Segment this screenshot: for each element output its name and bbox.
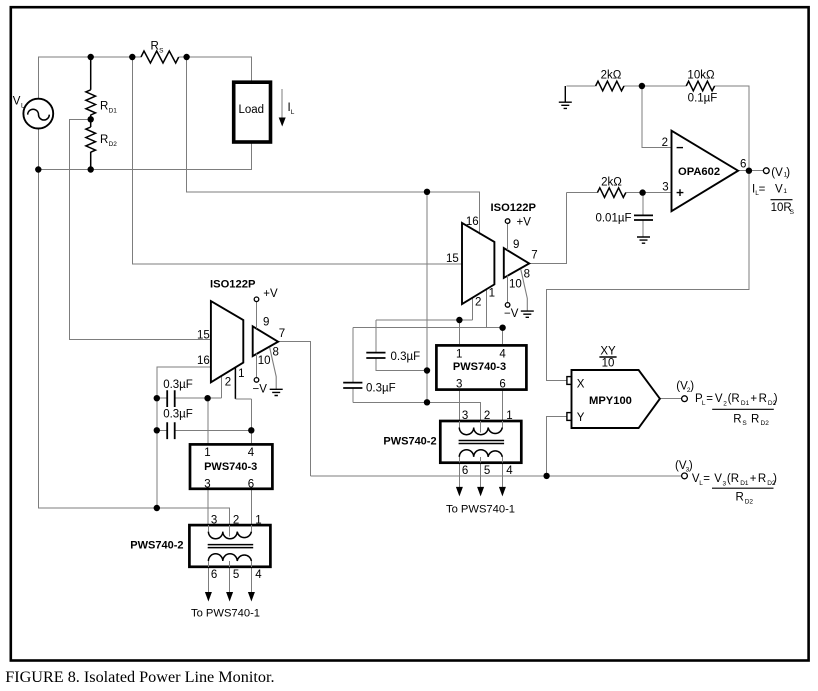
svg-text:0.3µF: 0.3µF — [391, 351, 421, 363]
svg-text:2: 2 — [723, 400, 727, 407]
svg-text:−V: −V — [253, 383, 268, 395]
svg-text:To PWS740-1: To PWS740-1 — [446, 504, 515, 516]
svg-text:2: 2 — [225, 377, 231, 389]
svg-text:2: 2 — [233, 514, 239, 526]
svg-text:(R: (R — [728, 393, 740, 405]
svg-text:=: = — [706, 393, 713, 405]
svg-text:D2: D2 — [109, 141, 118, 148]
svg-text:0.3µF: 0.3µF — [163, 379, 193, 391]
svg-text:ISO122P: ISO122P — [491, 202, 537, 214]
svg-text:OPA602: OPA602 — [678, 166, 720, 178]
svg-text:R: R — [151, 41, 159, 53]
svg-text:9: 9 — [263, 317, 269, 329]
svg-text:3: 3 — [204, 479, 210, 491]
svg-text:): ) — [786, 167, 790, 179]
svg-text:4: 4 — [506, 465, 513, 477]
svg-text:10: 10 — [258, 355, 271, 367]
svg-text:L: L — [702, 400, 706, 407]
svg-text:(R: (R — [727, 473, 739, 485]
svg-text:Y: Y — [577, 412, 585, 424]
svg-text:): ) — [774, 393, 778, 405]
svg-text:D1: D1 — [740, 480, 749, 487]
svg-text:R: R — [100, 134, 108, 146]
svg-text:0.1µF: 0.1µF — [688, 93, 718, 105]
svg-text:1: 1 — [506, 410, 512, 422]
svg-text:2: 2 — [475, 296, 481, 308]
svg-text:D2: D2 — [745, 498, 754, 505]
svg-text:D1: D1 — [741, 400, 750, 407]
svg-text:0.3µF: 0.3µF — [163, 409, 193, 421]
svg-text:2: 2 — [484, 410, 490, 422]
svg-text:): ) — [690, 380, 694, 392]
svg-text:+: + — [750, 393, 757, 405]
svg-text:0.3µF: 0.3µF — [366, 382, 396, 394]
svg-text:V: V — [13, 96, 21, 108]
svg-text:10: 10 — [509, 279, 522, 291]
svg-text:3: 3 — [456, 379, 462, 391]
svg-text:S: S — [159, 48, 164, 55]
svg-text:16: 16 — [466, 216, 479, 228]
svg-text:=: = — [703, 473, 710, 485]
svg-text:S: S — [742, 420, 747, 427]
svg-text:PWS740-2: PWS740-2 — [383, 436, 436, 448]
svg-text:6: 6 — [740, 158, 746, 170]
svg-text:3: 3 — [462, 410, 468, 422]
svg-text:2kΩ: 2kΩ — [601, 177, 622, 189]
svg-text:Load: Load — [239, 104, 265, 116]
svg-text:15: 15 — [446, 253, 459, 265]
svg-text:6: 6 — [499, 379, 505, 391]
svg-text:7: 7 — [279, 328, 285, 340]
svg-text:R: R — [733, 414, 741, 426]
svg-text:4: 4 — [248, 447, 255, 459]
svg-text:PWS740-2: PWS740-2 — [130, 539, 183, 551]
svg-text:X: X — [577, 379, 585, 391]
svg-text:ISO122P: ISO122P — [210, 279, 256, 291]
svg-text:8: 8 — [524, 268, 530, 280]
svg-text:3: 3 — [211, 514, 217, 526]
svg-text:R: R — [100, 101, 108, 113]
svg-text:6: 6 — [462, 465, 468, 477]
svg-text:1: 1 — [238, 368, 244, 380]
svg-text:(V: (V — [771, 167, 783, 179]
svg-text:XY: XY — [600, 345, 616, 357]
svg-text:9: 9 — [513, 239, 519, 251]
svg-text:5: 5 — [233, 569, 239, 581]
svg-text:PWS740-3: PWS740-3 — [453, 361, 506, 373]
svg-text:2kΩ: 2kΩ — [601, 69, 622, 81]
svg-text:R: R — [758, 473, 766, 485]
svg-text:1: 1 — [489, 288, 495, 300]
svg-text:=: = — [759, 183, 766, 195]
svg-text:PWS740-3: PWS740-3 — [204, 461, 257, 473]
svg-text:10kΩ: 10kΩ — [687, 69, 715, 81]
svg-text:FIGURE 8. Isolated Power Line: FIGURE 8. Isolated Power Line Monitor. — [5, 668, 274, 686]
svg-text:V: V — [775, 184, 783, 196]
svg-text:8: 8 — [273, 347, 279, 359]
svg-text:+: + — [750, 473, 757, 485]
svg-text:15: 15 — [197, 329, 210, 341]
svg-text:): ) — [773, 473, 777, 485]
svg-text:3: 3 — [723, 480, 727, 487]
svg-text:): ) — [689, 460, 693, 472]
svg-text:1: 1 — [456, 349, 462, 361]
svg-text:7: 7 — [531, 250, 537, 262]
svg-text:V: V — [715, 393, 723, 405]
svg-text:R: R — [759, 393, 767, 405]
svg-text:D2: D2 — [761, 420, 770, 427]
svg-text:1: 1 — [255, 514, 261, 526]
svg-text:10R: 10R — [771, 202, 792, 214]
svg-text:16: 16 — [197, 355, 210, 367]
svg-text:+V: +V — [263, 288, 278, 300]
svg-text:4: 4 — [255, 569, 262, 581]
svg-text:2: 2 — [662, 137, 668, 149]
svg-text:1: 1 — [783, 188, 787, 195]
svg-text:MPY100: MPY100 — [589, 395, 632, 407]
svg-text:0.01µF: 0.01µF — [595, 213, 631, 225]
svg-text:4: 4 — [499, 349, 506, 361]
svg-text:6: 6 — [211, 569, 217, 581]
svg-text:10: 10 — [602, 358, 615, 370]
svg-text:R: R — [751, 414, 759, 426]
svg-text:S: S — [790, 209, 795, 216]
svg-text:1: 1 — [204, 447, 210, 459]
svg-text:+V: +V — [517, 217, 532, 229]
svg-text:3: 3 — [662, 182, 668, 194]
svg-text:V: V — [714, 473, 722, 485]
svg-text:−V: −V — [504, 308, 519, 320]
svg-text:6: 6 — [248, 479, 254, 491]
svg-text:R: R — [736, 492, 744, 504]
svg-text:To PWS740-1: To PWS740-1 — [191, 608, 260, 620]
svg-text:L: L — [21, 103, 25, 110]
svg-text:5: 5 — [484, 465, 490, 477]
svg-text:L: L — [291, 109, 295, 116]
svg-text:D1: D1 — [109, 108, 118, 115]
